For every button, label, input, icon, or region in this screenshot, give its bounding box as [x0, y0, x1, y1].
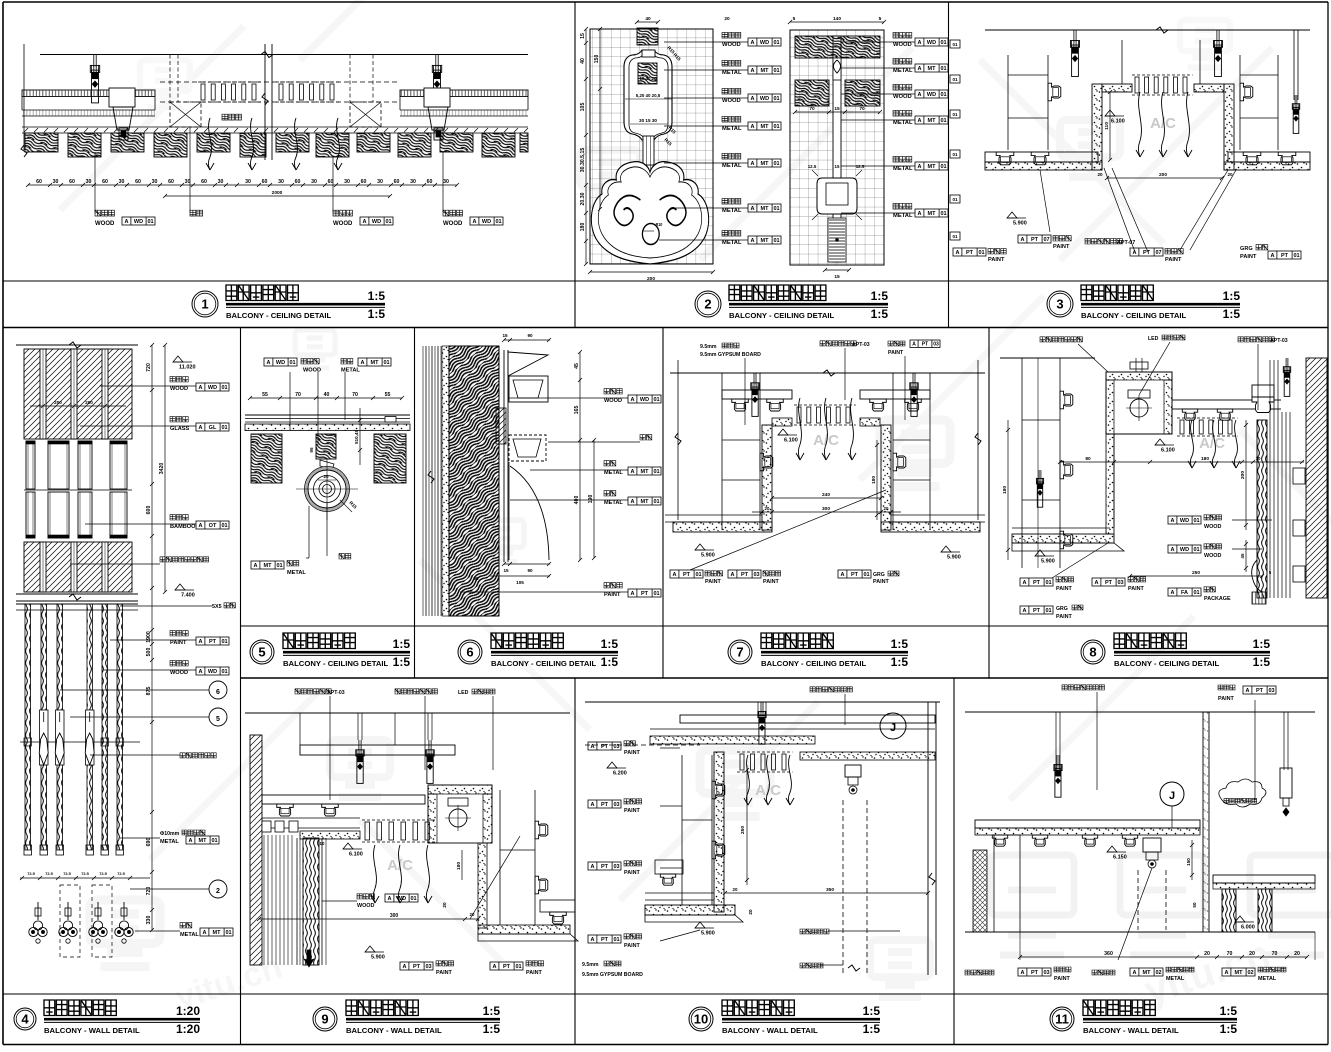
p2 right top wood band [795, 36, 880, 58]
svg-text:GRG: GRG [873, 572, 885, 578]
svg-text:15: 15 [503, 568, 509, 573]
p2 label handpaint [722, 198, 741, 204]
p8 light coffer box [1106, 372, 1172, 434]
svg-text:190: 190 [588, 495, 594, 504]
p6 stipple column [442, 346, 449, 616]
p3 leader lines to labels [1104, 168, 1135, 252]
svg-text:PT: PT [1105, 580, 1113, 586]
svg-text:10: 10 [694, 1012, 708, 1027]
svg-text:1:5: 1:5 [871, 307, 889, 321]
p4 elevation 7.400 [175, 584, 185, 590]
svg-text:A: A [361, 360, 365, 366]
p9 top slab line [245, 712, 570, 714]
svg-text:20: 20 [442, 902, 447, 908]
p1 label wood face [443, 210, 462, 216]
p9 lower band left [262, 817, 360, 819]
svg-text:2: 2 [704, 297, 711, 312]
svg-text:55: 55 [385, 392, 391, 398]
svg-text:A: A [751, 206, 755, 212]
p8 coffer lower leg [1106, 434, 1114, 534]
title 5 [250, 640, 274, 664]
p8 molding curl bottom [1252, 560, 1263, 592]
svg-text:1:5: 1:5 [393, 637, 411, 651]
p6 upper box [509, 376, 548, 402]
p4 bottom hooks [37, 902, 39, 920]
svg-text:90: 90 [527, 333, 533, 338]
p8 top labels [1040, 337, 1082, 342]
p8 mid labels wood [1168, 516, 1201, 524]
svg-text:5.900: 5.900 [371, 955, 385, 961]
p4 hanging rods [25, 604, 31, 850]
svg-text:A: A [918, 92, 922, 98]
svg-text:01: 01 [952, 234, 958, 239]
p2 right mid bracket [817, 178, 857, 214]
p11 bottom base line [965, 931, 1315, 933]
svg-text:METAL: METAL [604, 470, 623, 476]
p2 center label column [722, 32, 741, 38]
svg-text:PT: PT [1033, 580, 1041, 586]
svg-text:A: A [267, 360, 271, 366]
svg-text:1:5: 1:5 [871, 289, 889, 303]
svg-text:01: 01 [940, 118, 946, 124]
svg-text:10,40,20: 10,40,20 [639, 76, 657, 81]
svg-text:30: 30 [245, 179, 251, 185]
svg-text:METAL: METAL [722, 240, 742, 246]
svg-text:PT: PT [601, 744, 609, 750]
svg-text:MT: MT [761, 161, 770, 167]
svg-text:01: 01 [495, 219, 501, 225]
p11 curtain motor center [1143, 838, 1161, 852]
p3 diffuser comb [1132, 74, 1193, 76]
svg-text:MT: MT [761, 238, 770, 244]
p3 coffer left leg [1092, 84, 1102, 170]
svg-text:PAINT: PAINT [1053, 244, 1070, 250]
title 9 [313, 1007, 337, 1031]
svg-text:A: A [254, 563, 258, 569]
svg-text:60: 60 [262, 179, 268, 185]
svg-text:PT: PT [1256, 688, 1264, 694]
svg-text:150: 150 [1186, 858, 1191, 866]
svg-text:A: A [918, 66, 922, 72]
svg-text:PAINT: PAINT [1056, 614, 1072, 620]
p7 top slab line [670, 372, 985, 374]
svg-text:6.200: 6.200 [613, 771, 627, 777]
svg-text:01: 01 [940, 211, 946, 217]
svg-text:95: 95 [473, 576, 479, 581]
svg-text:70: 70 [352, 392, 358, 398]
svg-text:30: 30 [443, 179, 449, 185]
p1 hanger right [435, 55, 437, 68]
svg-text:PAINT: PAINT [1218, 696, 1234, 702]
svg-text:5X5: 5X5 [212, 604, 222, 610]
title 4 [14, 1008, 36, 1030]
p4 upper hatched glass wall [24, 349, 132, 439]
svg-text:METAL: METAL [893, 120, 913, 126]
svg-text:15: 15 [502, 333, 508, 338]
p2 left bottom dim 200 [590, 271, 713, 273]
svg-text:PT: PT [413, 964, 421, 970]
p11 right wall vlines [1202, 712, 1204, 932]
p9 label wood mid [357, 894, 375, 899]
p3 right upper wall studs [1239, 55, 1241, 150]
svg-text:45: 45 [1240, 553, 1245, 559]
svg-text:WD: WD [1180, 518, 1189, 524]
p2 right top dims [790, 21, 884, 23]
svg-text:180: 180 [580, 223, 586, 232]
p9 diffuser comb [362, 819, 437, 821]
p7 hangers [753, 373, 755, 384]
svg-text:9.5mm: 9.5mm [700, 344, 717, 350]
p2 lantern top metal piece [642, 50, 655, 57]
p3 label vent trim [1085, 239, 1122, 244]
p2 right lower striped tassel [828, 218, 846, 262]
svg-text:01: 01 [613, 937, 619, 943]
svg-text:03: 03 [1117, 580, 1123, 586]
svg-text:60: 60 [69, 179, 75, 185]
svg-text:9.5mm: 9.5mm [582, 962, 599, 968]
svg-text:140: 140 [833, 16, 841, 22]
svg-text:PT: PT [741, 572, 749, 578]
svg-text:A: A [1171, 547, 1175, 553]
svg-text:WD: WD [1180, 547, 1189, 553]
p2 cloud heart shape [591, 162, 708, 264]
p9 dims [259, 918, 478, 920]
svg-text:PT: PT [601, 802, 609, 808]
svg-text:A/C: A/C [755, 782, 781, 799]
svg-text:40: 40 [580, 58, 586, 64]
p11 right ceiling band [1213, 875, 1315, 883]
svg-text:90: 90 [527, 568, 533, 573]
svg-text:OT: OT [209, 523, 217, 529]
p11 hanger right [1283, 712, 1285, 770]
svg-text:01: 01 [221, 425, 227, 431]
svg-text:5.900: 5.900 [701, 931, 715, 937]
svg-text:1:5: 1:5 [483, 1004, 501, 1018]
p9 blocking row [262, 821, 271, 832]
p7 right break vline [977, 360, 979, 520]
svg-text:WOOD: WOOD [604, 398, 622, 404]
svg-text:20.30: 20.30 [580, 192, 586, 205]
p9 bottom labels [400, 962, 433, 970]
svg-text:1:5: 1:5 [1220, 1022, 1238, 1036]
p9 bottom flange [478, 925, 570, 934]
svg-text:APT-07: APT-07 [1117, 240, 1135, 246]
svg-text:WOOD: WOOD [893, 42, 912, 48]
svg-text:WD: WD [640, 397, 649, 403]
svg-text:APT-03: APT-03 [1270, 338, 1288, 344]
p7 elevation 5.900 left [695, 544, 705, 550]
p11 curtain dashed box [1137, 870, 1139, 930]
svg-text:72.5: 72.5 [117, 871, 125, 876]
p4 elevation 11.020 [173, 356, 183, 362]
svg-text:30: 30 [311, 179, 317, 185]
p5 vert dim 510 45 [359, 408, 361, 465]
svg-text:360: 360 [1104, 951, 1113, 957]
svg-text:A: A [388, 896, 392, 902]
p3 coffer top shelf right [1194, 84, 1224, 92]
p6 label paint [604, 583, 622, 588]
p8 lamp hanger rod [1135, 358, 1137, 372]
svg-text:70: 70 [295, 392, 301, 398]
p2 lantern wood block [638, 63, 657, 84]
svg-text:WOOD: WOOD [443, 221, 463, 227]
svg-text:20: 20 [748, 909, 753, 915]
svg-text:300: 300 [390, 913, 399, 919]
svg-text:PAINT: PAINT [170, 640, 187, 646]
p4 upper poles [40, 349, 46, 439]
p8 bottom band [1012, 527, 1110, 529]
p8 right big clip [1252, 385, 1274, 397]
svg-text:A: A [591, 802, 595, 808]
svg-text:PAINT: PAINT [1128, 586, 1144, 592]
svg-text:01: 01 [773, 40, 779, 46]
svg-text:01: 01 [515, 964, 521, 970]
svg-text:02: 02 [1247, 970, 1253, 976]
svg-text:70: 70 [809, 106, 815, 112]
svg-text:01: 01 [952, 77, 958, 82]
p1 wood grille blocks [25, 133, 58, 152]
svg-text:01: 01 [940, 92, 946, 98]
svg-text:7.400: 7.400 [181, 593, 195, 599]
title 8 [1081, 640, 1105, 664]
p4 note stone [160, 557, 209, 562]
svg-text:01: 01 [773, 124, 779, 130]
p11 bottom labels [965, 970, 994, 975]
p10 left lower band [645, 892, 714, 894]
svg-text:A: A [473, 219, 477, 225]
svg-text:PAINT: PAINT [1165, 257, 1182, 263]
title 3 [1047, 291, 1073, 317]
svg-text:A: A [673, 572, 677, 578]
p4 dim 200 200 [30, 405, 126, 407]
svg-text:6.100: 6.100 [784, 438, 798, 444]
svg-text:1:5: 1:5 [1253, 655, 1271, 669]
svg-text:1:5: 1:5 [1223, 307, 1241, 321]
svg-text:PT: PT [1031, 970, 1039, 976]
svg-text:6.100: 6.100 [1161, 448, 1175, 454]
svg-text:A: A [1095, 580, 1099, 586]
p2 cloud scroll right [660, 195, 686, 225]
p1 ceiling channel left [22, 90, 155, 97]
svg-text:30: 30 [410, 179, 416, 185]
svg-text:A: A [631, 397, 635, 403]
svg-text:1:5: 1:5 [368, 307, 386, 321]
svg-text:A: A [751, 238, 755, 244]
svg-text:72.5: 72.5 [99, 871, 107, 876]
p6 labels right [604, 389, 622, 394]
svg-text:03: 03 [753, 572, 759, 578]
svg-text:01: 01 [225, 930, 231, 936]
p6 right dim chains [579, 352, 581, 560]
svg-text:200: 200 [1240, 471, 1246, 479]
p6 wall stripe column [422, 346, 424, 616]
svg-text:PAINT: PAINT [1054, 976, 1070, 982]
svg-text:01: 01 [1193, 518, 1199, 524]
svg-text:875: 875 [146, 687, 152, 696]
svg-text:330: 330 [146, 916, 152, 925]
svg-text:METAL: METAL [160, 839, 179, 845]
svg-text:200: 200 [85, 400, 93, 405]
svg-text:A: A [591, 937, 595, 943]
p5 ceiling band [245, 414, 410, 416]
p7 elevation 6.100 [778, 429, 788, 435]
svg-text:350: 350 [826, 887, 834, 893]
svg-text:BAMBOO: BAMBOO [170, 524, 196, 530]
svg-text:1:5: 1:5 [601, 637, 619, 651]
svg-text:01: 01 [383, 360, 389, 366]
svg-text:PT: PT [1281, 253, 1289, 259]
svg-text:45: 45 [574, 363, 580, 369]
svg-text:01: 01 [385, 219, 391, 225]
p8 bottom left labels [1020, 578, 1053, 586]
svg-text:GRG: GRG [1056, 606, 1068, 612]
svg-text:MT: MT [1143, 970, 1152, 976]
svg-text:WOOD: WOOD [893, 94, 912, 100]
svg-text:MT: MT [761, 68, 770, 74]
svg-text:1:5: 1:5 [1220, 1004, 1238, 1018]
svg-text:1:5: 1:5 [1253, 637, 1271, 651]
svg-text:01: 01 [1193, 547, 1199, 553]
svg-text:01: 01 [773, 68, 779, 74]
svg-text:A: A [751, 40, 755, 46]
svg-text:A: A [363, 219, 367, 225]
svg-text:70: 70 [859, 106, 865, 112]
svg-text:01: 01 [221, 523, 227, 529]
svg-text:1:5: 1:5 [393, 655, 411, 669]
p9 left hatch wall [250, 735, 262, 965]
svg-text:15: 15 [835, 164, 840, 169]
svg-text:PT: PT [683, 572, 691, 578]
p11 top slab line [965, 711, 1315, 713]
svg-text:A: A [199, 639, 203, 645]
svg-text:A: A [493, 964, 497, 970]
p9 top labels with leaders [295, 689, 331, 694]
svg-text:PT: PT [1033, 608, 1041, 614]
p1 hanger left [93, 55, 95, 68]
p11 leader diag [1118, 868, 1152, 960]
svg-text:BALCONY - CEILING DETAIL: BALCONY - CEILING DETAIL [283, 659, 389, 668]
svg-text:WD: WD [927, 40, 936, 46]
svg-text:250: 250 [740, 826, 746, 834]
svg-text:9.5mm GYPSUM BOARD: 9.5mm GYPSUM BOARD [582, 972, 643, 978]
svg-text:6.100: 6.100 [349, 852, 363, 858]
p4 dim 72.5 row [20, 877, 150, 879]
svg-text:A/C: A/C [813, 432, 839, 449]
svg-text:60: 60 [295, 179, 301, 185]
svg-text:WD: WD [397, 896, 406, 902]
svg-text:01: 01 [952, 197, 958, 202]
p8 dim 250 [1130, 575, 1262, 577]
svg-text:METAL: METAL [180, 932, 199, 938]
p10 top label junction box [810, 687, 852, 692]
svg-text:60: 60 [394, 179, 400, 185]
p2 left top dim 40 [637, 21, 658, 23]
p6 hatch connector [496, 408, 506, 444]
svg-text:A: A [1133, 250, 1137, 256]
p3 elevation 6.100 [1105, 110, 1115, 116]
p9 bottom label right [490, 962, 523, 970]
svg-text:01: 01 [1045, 608, 1051, 614]
svg-text:60: 60 [427, 179, 433, 185]
p10 upper band [680, 715, 935, 723]
p4 axis circle 2 [209, 880, 227, 898]
p7 diffuser comb [794, 404, 856, 406]
svg-text:A: A [731, 572, 735, 578]
svg-text:07: 07 [1043, 237, 1049, 243]
p7 bottom labels [670, 570, 703, 578]
svg-text:01: 01 [695, 572, 701, 578]
svg-text:A: A [1171, 518, 1175, 524]
svg-text:12.5: 12.5 [856, 164, 865, 169]
svg-text:30: 30 [377, 179, 383, 185]
svg-text:95: 95 [309, 447, 314, 453]
svg-text:03: 03 [1043, 970, 1049, 976]
svg-text:60: 60 [168, 179, 174, 185]
svg-text:01: 01 [952, 152, 958, 157]
p10 left labels [588, 742, 621, 750]
p8 dim row 80 180 10 [1060, 461, 1304, 463]
svg-text:MT: MT [641, 499, 650, 505]
svg-text:40: 40 [324, 392, 330, 398]
svg-text:5: 5 [793, 16, 796, 22]
svg-text:PAINT: PAINT [1056, 586, 1072, 592]
svg-text:PT: PT [1031, 237, 1039, 243]
svg-text:30: 30 [344, 179, 350, 185]
svg-text:5.900: 5.900 [701, 553, 715, 559]
svg-text:70: 70 [1227, 951, 1233, 957]
svg-text:WOOD: WOOD [1204, 524, 1221, 530]
svg-text:A: A [1225, 970, 1229, 976]
svg-text:Φ10mm: Φ10mm [160, 831, 180, 837]
svg-text:72.5: 72.5 [45, 871, 53, 876]
p6 sweep curve [510, 466, 549, 560]
p8 elevation 6.100 [1155, 439, 1165, 445]
p5 label spotlight [339, 554, 351, 559]
svg-text:MT: MT [641, 469, 650, 475]
p10 left wall studs [681, 755, 683, 905]
svg-text:WD: WD [927, 92, 936, 98]
svg-text:30: 30 [185, 179, 191, 185]
p3 inner verticals [1121, 40, 1123, 84]
p3 right ceiling band [1228, 152, 1310, 162]
svg-text:MT: MT [928, 164, 937, 170]
p4 mid tick band [20, 741, 140, 743]
svg-text:BALCONY - WALL DETAIL: BALCONY - WALL DETAIL [1083, 1026, 1179, 1035]
svg-text:01: 01 [289, 360, 295, 366]
p2 lantern frame outer [624, 50, 672, 140]
svg-text:A: A [1023, 608, 1027, 614]
svg-text:METAL: METAL [722, 70, 742, 76]
svg-text:A: A [591, 744, 595, 750]
p2 lantern stem [643, 136, 654, 169]
p9 coffer lamp [449, 809, 467, 827]
svg-text:20: 20 [1204, 951, 1210, 957]
svg-text:A: A [1023, 580, 1027, 586]
p3 elevation 5.900 [1007, 212, 1017, 218]
p11 left white columns [994, 835, 1020, 932]
svg-text:40: 40 [645, 16, 651, 22]
svg-text:PAINT: PAINT [624, 870, 640, 876]
svg-text:720: 720 [146, 363, 152, 372]
p6 label metal 1 [604, 461, 616, 466]
svg-text:R10: R10 [656, 222, 663, 228]
svg-text:01: 01 [221, 639, 227, 645]
svg-text:500: 500 [146, 648, 152, 657]
svg-text:WD: WD [760, 40, 769, 46]
svg-text:2: 2 [216, 888, 220, 895]
p1 label wood grille 2 [333, 210, 352, 216]
svg-text:200: 200 [647, 276, 655, 282]
